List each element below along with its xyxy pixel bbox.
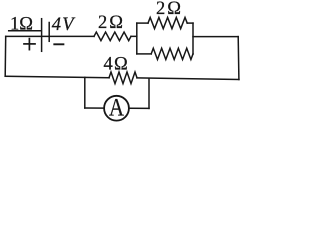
svg-text:2 Ω: 2 Ω bbox=[98, 13, 123, 33]
svg-text:2 Ω: 2 Ω bbox=[156, 0, 181, 19]
svg-text:1 Ω: 1 Ω bbox=[10, 15, 33, 35]
svg-text:A: A bbox=[109, 94, 124, 121]
svg-text:4 Ω: 4 Ω bbox=[104, 55, 128, 75]
svg-text:4 V: 4 V bbox=[52, 15, 76, 35]
